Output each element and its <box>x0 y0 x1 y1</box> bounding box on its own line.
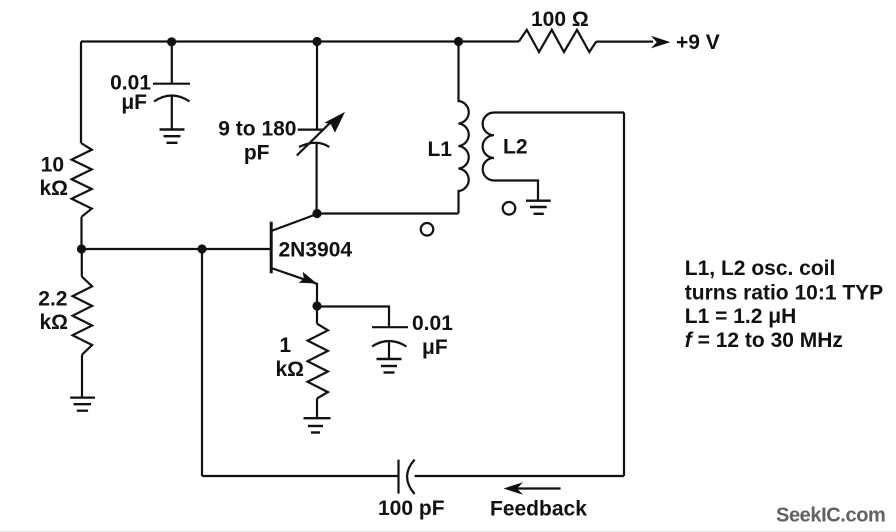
svg-text:pF: pF <box>244 142 270 165</box>
svg-text:L1: L1 <box>427 138 452 161</box>
wire: top supply rail <box>81 40 519 42</box>
variable capacitor 9 to 180 pF <box>298 130 330 214</box>
wire: base from divider <box>82 248 271 250</box>
svg-text:0.01: 0.01 <box>412 312 453 335</box>
wire: rail to 0.01uF cap <box>171 42 173 84</box>
wire: 2.2k to ground <box>81 355 83 397</box>
wire: junction down to 2.2k <box>81 249 83 277</box>
capacitor 100 pF (feedback) <box>399 460 415 494</box>
svg-text:turns ratio 10:1 TYP: turns ratio 10:1 TYP <box>685 282 883 305</box>
svg-text:kΩ: kΩ <box>39 177 68 200</box>
wire: rail down to variable cap <box>316 42 318 130</box>
svg-text:2.2: 2.2 <box>38 288 67 311</box>
svg-text:Feedback: Feedback <box>490 498 587 521</box>
wire: collector node to L1 bottom <box>317 212 459 214</box>
svg-text:SeekIC.com: SeekIC.com <box>776 505 885 527</box>
inductor L2 with top lead <box>483 113 624 201</box>
svg-text:1: 1 <box>279 334 291 357</box>
wire: emitter node to 1k <box>316 307 318 324</box>
junction dot: collector node <box>312 209 321 218</box>
wire: feedback vertical (base side) <box>201 249 203 476</box>
wire: resistor to +9V arrow <box>596 40 653 42</box>
svg-text:10: 10 <box>41 154 64 177</box>
junction dot: L1 tap on rail <box>454 37 463 46</box>
svg-text:L1 = 1.2 μH: L1 = 1.2 μH <box>685 305 796 328</box>
junction node: divider tap <box>77 244 86 253</box>
resistor 10 kOhm <box>72 143 92 217</box>
ground: below 2.2k <box>70 398 95 411</box>
junction dot: bypass cap tap on rail <box>167 37 176 46</box>
junction dot: tuning cap tap on rail <box>312 37 321 46</box>
capacitor 0.01 uF (emitter) <box>372 327 408 358</box>
ground: below bypass cap <box>160 130 185 143</box>
ground: below 1k <box>304 418 331 432</box>
wire: 10k to junction <box>80 217 82 249</box>
resistor 1 kOhm <box>308 324 328 399</box>
svg-text:9 to 180: 9 to 180 <box>218 118 296 141</box>
svg-text:μF: μF <box>422 336 448 359</box>
wire: bottom feedback run (left of cap) <box>202 475 399 477</box>
wire: left vertical from rail to 10k <box>80 42 82 144</box>
svg-text:kΩ: kΩ <box>39 311 68 334</box>
svg-text:μF: μF <box>121 91 147 114</box>
junction dot: emitter node <box>312 301 321 310</box>
svg-text:kΩ: kΩ <box>275 358 304 381</box>
wire: 1k to ground <box>316 399 318 418</box>
transistor 2N3904: base bar <box>270 222 273 274</box>
resistor 100 Ohm (supply) <box>519 30 596 52</box>
ground: L2 <box>526 201 551 214</box>
wire: emitter node to emitter bypass cap <box>317 307 389 328</box>
junction dot: feedback tap on base wire <box>197 244 206 253</box>
faint bottom edge line <box>0 530 896 532</box>
ground: emitter bypass cap <box>377 359 402 373</box>
transistor emitter lead <box>271 268 317 306</box>
wire: bottom feedback run (right of cap) <box>415 475 624 477</box>
svg-text:100 Ω: 100 Ω <box>531 8 589 31</box>
svg-text:L2: L2 <box>503 136 528 159</box>
svg-text:100 pF: 100 pF <box>378 497 445 520</box>
emitter arrowhead <box>299 272 317 284</box>
terminal circle near L2 <box>503 202 516 215</box>
svg-text:L1, L2 osc. coil: L1, L2 osc. coil <box>685 257 836 280</box>
inductor L1 <box>459 42 469 214</box>
svg-text:+9 V: +9 V <box>676 31 720 54</box>
terminal circle near L1 <box>421 223 434 236</box>
arrow through variable cap <box>297 122 331 156</box>
feedback direction arrow <box>516 487 561 489</box>
capacitor 0.01 uF (bypass, top) <box>153 84 190 129</box>
svg-text:2N3904: 2N3904 <box>279 239 353 262</box>
transistor collector lead <box>271 214 317 231</box>
wire: right vertical up to L2 <box>623 113 625 477</box>
resistor 2.2 kOhm <box>73 277 93 355</box>
arrowhead +9V <box>651 36 671 49</box>
svg-text:f = 12 to 30 MHz: f = 12 to 30 MHz <box>685 329 843 352</box>
